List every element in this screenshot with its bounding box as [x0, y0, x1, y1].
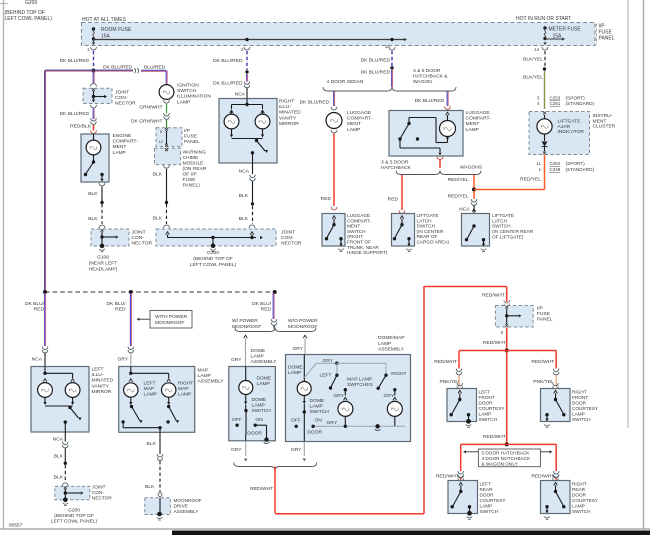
lamp LEFT MAP LAMP — [129, 379, 133, 382]
svg-text:LUGGAGE: LUGGAGE — [347, 213, 370, 218]
svg-text:NCA: NCA — [53, 436, 64, 442]
svg-text:LIFTGATE: LIFTGATE — [417, 213, 439, 218]
wire RED stub to brace — [439, 160, 441, 169]
svg-text:MINATED: MINATED — [92, 378, 114, 384]
wire RED/YEL down — [473, 191, 475, 199]
wire RED/WHT from dome brace — [274, 467, 276, 514]
svg-text:CON-: CON- — [92, 490, 104, 495]
svg-text:G200: G200 — [68, 508, 80, 514]
right map lamp terminal — [393, 388, 396, 391]
splice node — [543, 67, 546, 70]
svg-text:DOME: DOME — [251, 348, 266, 354]
svg-text:& WAGON ONLY: & WAGON ONLY — [482, 461, 519, 466]
svg-text:LEFT COWL PANEL): LEFT COWL PANEL) — [190, 262, 237, 268]
wire RED/WHT centre down — [506, 351, 508, 445]
svg-text:FUSE: FUSE — [184, 134, 198, 140]
svg-text:PANEL: PANEL — [537, 317, 553, 323]
lamp left vanity bulb — [230, 110, 234, 113]
brace moonroof split — [235, 328, 316, 332]
svg-text:RED: RED — [115, 307, 126, 313]
connector lf — [456, 369, 462, 372]
svg-text:INSTRU-: INSTRU- — [593, 113, 613, 119]
wire RED/WHT left branch — [459, 350, 507, 352]
connector at fuse panel — [504, 300, 510, 303]
connector below ignition lamp — [164, 100, 170, 103]
left map switch blade — [331, 375, 337, 387]
wire BLK below map box — [159, 432, 161, 454]
svg-text:DK BLU/RED: DK BLU/RED — [415, 98, 445, 104]
moonroof connector ring — [158, 493, 162, 497]
connector pin 1 — [91, 47, 97, 50]
svg-text:4 DOOR NOTCHBACK: 4 DOOR NOTCHBACK — [482, 456, 532, 461]
contact OFF 2 — [295, 425, 298, 428]
svg-text:COMPART-: COMPART- — [466, 116, 492, 122]
svg-text:PANEL): PANEL) — [183, 183, 201, 189]
svg-text:LAMP: LAMP — [347, 127, 360, 133]
svg-text:RIGHT: RIGHT — [572, 482, 587, 487]
svg-text:ASSEMBLY: ASSEMBLY — [378, 347, 405, 353]
svg-text:ON: ON — [255, 417, 263, 423]
svg-text:HATCHBACK &: HATCHBACK & — [413, 73, 448, 79]
wire DK BLU/RED riser 1 — [44, 293, 46, 346]
svg-text:IGNITION: IGNITION — [177, 83, 199, 89]
splice node — [64, 462, 67, 465]
svg-text:MENT: MENT — [466, 121, 480, 127]
svg-text:RED/WHT: RED/WHT — [482, 292, 505, 298]
wire RED/BLK — [93, 125, 95, 131]
svg-text:11: 11 — [537, 161, 542, 166]
wire DK BLU/RED to left riser — [45, 69, 94, 71]
connector rf — [553, 369, 559, 372]
svg-text:MOONROOF: MOONROOF — [288, 324, 317, 330]
note arrow — [140, 318, 151, 320]
junction RED/YEL — [472, 188, 476, 192]
svg-text:LAMP: LAMP — [288, 370, 301, 376]
svg-text:JOINT: JOINT — [115, 90, 129, 96]
joint connector G108 box — [91, 229, 129, 246]
svg-text:FRONT OF: FRONT OF — [347, 240, 371, 245]
diode symbol — [544, 134, 546, 141]
svg-text:RED/WHT: RED/WHT — [436, 473, 459, 479]
svg-text:DOOR: DOOR — [307, 429, 322, 435]
wire below left mirror — [64, 432, 66, 442]
svg-text:DK GRN/WHT: DK GRN/WHT — [131, 119, 163, 125]
svg-text:HATCHBACK: HATCHBACK — [381, 165, 412, 171]
svg-text:G200: G200 — [25, 0, 37, 6]
svg-text:MIRROR: MIRROR — [92, 389, 112, 395]
svg-text:MINATED: MINATED — [279, 110, 301, 116]
svg-text:GRY: GRY — [293, 346, 304, 352]
svg-text:HINGE SUPPORT): HINGE SUPPORT) — [347, 250, 388, 255]
pin into joint connector — [92, 88, 95, 91]
right map switch pivot — [384, 374, 387, 377]
right map switch blade — [379, 375, 386, 387]
entry arrow left — [166, 232, 170, 235]
svg-text:MOONROOF: MOONROOF — [174, 498, 202, 503]
svg-text:RIGHT: RIGHT — [279, 99, 294, 105]
svg-text:I/P: I/P — [184, 128, 190, 134]
dome2 entry — [303, 355, 305, 381]
svg-text:LAMP: LAMP — [572, 504, 585, 509]
svg-text:FUSE: FUSE — [183, 177, 197, 183]
connector — [399, 210, 405, 213]
svg-text:LAMP: LAMP — [257, 381, 270, 387]
svg-text:LAMP: LAMP — [378, 341, 391, 347]
svg-text:LATCH: LATCH — [492, 218, 507, 223]
svg-text:ROOM FUSE: ROOM FUSE — [101, 27, 132, 33]
wire RED/YEL from cluster — [544, 155, 546, 190]
wire BLK dashed — [166, 204, 168, 224]
inline connector — [250, 175, 256, 178]
ground moonroof — [157, 512, 162, 517]
pin into G108 — [101, 229, 104, 232]
svg-text:SWITCH: SWITCH — [572, 509, 591, 514]
wire PNK/YEL rf — [555, 376, 557, 388]
svg-text:(RIGHT: (RIGHT — [347, 234, 363, 239]
connector into G200 — [249, 225, 255, 228]
svg-text:RED/WHT: RED/WHT — [531, 359, 554, 365]
connector pin 14 — [542, 47, 548, 50]
svg-text:INDICATOR: INDICATOR — [558, 129, 585, 135]
G200 lower node — [64, 489, 66, 493]
svg-text:FRONT: FRONT — [572, 395, 588, 400]
switch LEFT REAR DOOR COURTESY LAMP — [458, 475, 464, 478]
svg-text:NECTOR: NECTOR — [281, 241, 302, 247]
connector lr — [458, 471, 464, 474]
svg-text:NCA: NCA — [459, 206, 470, 212]
ground G200 — [212, 238, 214, 245]
svg-text:OFF: OFF — [291, 417, 301, 423]
svg-text:BLK: BLK — [239, 193, 249, 199]
lamp DOME LAMP — [244, 379, 248, 382]
svg-text:SWITCH: SWITCH — [492, 224, 511, 229]
liftgate latch switch (cargo) box — [392, 214, 415, 247]
lamp RIGHT MAP LAMP 2 — [387, 401, 402, 416]
engine lamp switch — [93, 155, 95, 162]
svg-text:WAGONS: WAGONS — [460, 165, 483, 171]
svg-text:MAP: MAP — [144, 386, 155, 392]
svg-text:LEFT COWL PANEL): LEFT COWL PANEL) — [51, 519, 98, 525]
svg-text:NCA: NCA — [239, 168, 250, 174]
svg-text:BLK: BLK — [54, 454, 64, 460]
joint connector G200 lower box — [55, 486, 90, 499]
svg-text:OF I/P: OF I/P — [183, 172, 197, 178]
svg-text:BLK: BLK — [239, 216, 249, 222]
svg-text:SWITCH: SWITCH — [252, 408, 272, 414]
connector at engine lamp — [91, 130, 97, 133]
wire DK BLU/RED to hatchback lamp — [446, 92, 448, 107]
svg-text:BLK: BLK — [54, 475, 64, 481]
entry arrow — [446, 112, 450, 115]
pin out of fuse panel — [165, 144, 168, 147]
svg-text:LEFT: LEFT — [479, 390, 491, 395]
svg-text:BLK: BLK — [147, 441, 157, 447]
svg-text:BLK: BLK — [88, 191, 98, 197]
svg-text:BLK: BLK — [145, 484, 155, 490]
ground below liftgate switch — [482, 244, 485, 247]
svg-text:RIGHT: RIGHT — [391, 371, 406, 377]
svg-text:DK BLU/RED: DK BLU/RED — [60, 58, 90, 64]
fuse METER FUSE 15A — [543, 26, 546, 29]
svg-text:MENT: MENT — [347, 224, 360, 229]
svg-text:WARNING: WARNING — [183, 150, 207, 156]
ground G108 — [100, 244, 105, 249]
svg-text:LAMP: LAMP — [144, 392, 157, 398]
svg-text:AJAR: AJAR — [558, 124, 571, 130]
right inner border — [627, 0, 629, 428]
svg-text:SWITCH: SWITCH — [310, 409, 330, 415]
wire BLK dashed — [159, 461, 161, 492]
svg-text:WAGON: WAGON — [413, 79, 432, 85]
svg-text:MOONROOF: MOONROOF — [232, 324, 261, 330]
svg-text:HOT AT ALL TIMES: HOT AT ALL TIMES — [82, 17, 127, 23]
svg-text:SWITCH: SWITCH — [177, 88, 197, 94]
svg-text:DOME: DOME — [252, 397, 267, 403]
svg-text:OF LIFTGATE): OF LIFTGATE) — [492, 234, 524, 239]
brace hatchback/wagons — [396, 171, 481, 175]
svg-text:LEFT: LEFT — [144, 381, 156, 387]
junction RED/WHT lower — [505, 442, 509, 446]
brace body split — [323, 87, 456, 91]
note box 5 DOOR HATCHBACK — [478, 449, 540, 467]
liftgate cargo switch mech — [400, 216, 404, 219]
wire DK BLU/RED to sedan lamp — [333, 92, 335, 107]
liftgate latch switch (liftgate) box — [462, 214, 490, 247]
ground below liftgate cargo switch — [407, 244, 410, 247]
svg-text:DOOR: DOOR — [572, 493, 587, 498]
svg-text:3 & 5 DOOR: 3 & 5 DOOR — [381, 160, 409, 166]
wire DK BLU/RED riser 2 — [129, 293, 131, 346]
svg-text:14: 14 — [534, 47, 539, 52]
wire BLK/YEL — [544, 71, 546, 109]
connector into G200 joint connector — [164, 225, 170, 228]
lamp right vanity bulb — [261, 110, 265, 113]
svg-text:LAMP: LAMP — [198, 373, 211, 379]
svg-text:GRY: GRY — [291, 447, 302, 453]
lamp DOME LAMP 2 — [303, 380, 307, 383]
bus node mid — [129, 290, 133, 294]
entry arrow right — [250, 232, 254, 235]
svg-text:GRY: GRY — [323, 358, 334, 364]
map output bus — [121, 420, 124, 423]
indicator LIFTGATE AJAR — [544, 115, 546, 119]
lamp ENGINE COMPARTMENT LAMP — [93, 134, 95, 140]
bus from room fuse — [94, 39, 404, 41]
svg-text:RED/YEL: RED/YEL — [448, 193, 469, 199]
wire DK BLU/RED dashed from pin 1 — [93, 51, 95, 67]
luggage switch mech — [332, 216, 336, 219]
wire rr — [555, 478, 557, 480]
svg-text:DOOR: DOOR — [572, 401, 587, 406]
dome switch blade — [245, 411, 247, 435]
left vanity switch — [68, 406, 71, 409]
svg-text:RED: RED — [388, 197, 399, 203]
svg-text:FUSE: FUSE — [537, 311, 551, 317]
svg-text:ILLUMINATION: ILLUMINATION — [177, 94, 211, 100]
svg-text:RED: RED — [321, 196, 332, 202]
svg-text:LEFT: LEFT — [320, 372, 332, 378]
svg-text:ASSEMBLY: ASSEMBLY — [174, 509, 200, 514]
left map switch — [130, 397, 132, 404]
svg-text:NCA: NCA — [32, 357, 43, 363]
svg-text:DK BLU/RED: DK BLU/RED — [300, 99, 330, 105]
dashed distribution bus — [45, 291, 275, 293]
brace dome outputs join — [234, 463, 317, 471]
svg-text:W/O POWER: W/O POWER — [288, 318, 318, 324]
wire BLK dashed — [101, 204, 103, 224]
svg-text:LAMP: LAMP — [466, 127, 479, 133]
I/P fuse panel passthrough box — [156, 128, 182, 147]
svg-text:RIGHT: RIGHT — [178, 381, 193, 387]
lamp left bulb — [43, 379, 47, 382]
svg-text:JOINT: JOINT — [132, 230, 146, 236]
svg-text:GRY: GRY — [384, 393, 395, 399]
wire DK BLU/RED dashed from pin 2 — [246, 51, 248, 70]
svg-text:(NEAR LEFT: (NEAR LEFT — [89, 261, 118, 267]
svg-text:MAP: MAP — [198, 368, 209, 374]
map feed node — [130, 367, 132, 374]
connector below chime module — [164, 165, 170, 168]
wire BLU/RED to ignition lamp — [141, 69, 167, 71]
connector — [157, 454, 163, 457]
pin into cluster — [543, 112, 546, 115]
svg-text:(SPORT): (SPORT) — [566, 161, 586, 166]
left map switch pivot — [336, 363, 338, 374]
svg-text:JOINT: JOINT — [92, 485, 106, 490]
wire into left vanity mirror — [44, 353, 46, 367]
connector rr — [553, 471, 559, 474]
right outer border — [643, 0, 645, 529]
fuse ROOM FUSE 15A — [92, 27, 95, 30]
svg-text:DOOR: DOOR — [247, 430, 262, 436]
wire into liftgate switch — [473, 205, 475, 214]
svg-text:MAP: MAP — [178, 386, 189, 392]
svg-text:VANITY: VANITY — [279, 115, 297, 121]
bus node left — [43, 290, 47, 294]
svg-text:RED: RED — [261, 307, 272, 313]
svg-text:GRY: GRY — [333, 393, 344, 399]
pin into G200 lower — [64, 486, 67, 489]
svg-text:G108: G108 — [97, 255, 109, 261]
inline connector — [164, 113, 170, 116]
wire BLK — [64, 449, 66, 463]
moonroof internal wire — [159, 498, 161, 514]
liftgate switch mech — [472, 224, 475, 227]
svg-text:CON-: CON- — [115, 95, 128, 101]
svg-text:JOINT: JOINT — [281, 230, 295, 236]
svg-text:TRUNK, NEAR: TRUNK, NEAR — [347, 245, 379, 250]
hatchback lamp to switch path — [446, 138, 449, 141]
svg-text:BLK: BLK — [153, 172, 163, 178]
svg-text:RED/WHT: RED/WHT — [483, 340, 506, 346]
svg-text:COMPART-: COMPART- — [347, 218, 372, 223]
svg-text:PNK/YEL: PNK/YEL — [533, 379, 554, 385]
joint connector G200 box — [156, 229, 276, 246]
wire DK BLU/RED to ignition lamp — [94, 69, 134, 71]
fuse panel 2 node — [506, 309, 508, 316]
svg-text:COMPART-: COMPART- — [113, 139, 139, 145]
svg-text:NECTOR: NECTOR — [115, 101, 136, 107]
wire to right dome branch — [303, 335, 307, 338]
left illuminated vanity mirror box — [31, 367, 89, 433]
svg-text:DOME: DOME — [257, 375, 272, 381]
connector below sedan lamp — [331, 130, 337, 133]
switch RIGHT FRONT DOOR COURTESY LAMP — [553, 383, 559, 386]
wire RED/WHT down — [506, 328, 508, 351]
wire BLK dashed — [252, 206, 254, 224]
splice node — [100, 201, 103, 204]
I/P fuse panel box 2 — [495, 306, 533, 328]
wire BLK dashed — [64, 465, 66, 482]
svg-text:DK BLU/RED: DK BLU/RED — [213, 58, 243, 64]
svg-text:COURTESY: COURTESY — [479, 406, 506, 411]
svg-text:DOME: DOME — [288, 364, 303, 370]
svg-text:SWITCH: SWITCH — [417, 224, 436, 229]
joint connector (engine harness) — [83, 88, 112, 103]
svg-text:C251: C251 — [550, 101, 561, 106]
wire BLK — [252, 182, 254, 204]
svg-text:MENT: MENT — [347, 121, 361, 127]
svg-text:DK BLU/RED: DK BLU/RED — [213, 81, 243, 87]
vanity joining bus — [44, 398, 46, 404]
wire RED/WHT into fuse panel — [506, 287, 508, 303]
svg-text:ASSEMBLY: ASSEMBLY — [251, 359, 278, 365]
splice node — [251, 202, 254, 205]
moonroof drive assembly box — [145, 498, 171, 515]
wire DK BLU/RED riser 3 — [272, 293, 274, 319]
dome entry — [245, 367, 247, 380]
dome2 exit — [303, 436, 305, 442]
svg-text:(IN CENTER: (IN CENTER — [417, 229, 444, 234]
svg-text:WITH POWER: WITH POWER — [155, 314, 188, 320]
svg-text:DK BLU/: DK BLU/ — [106, 301, 126, 307]
svg-text:(SPORT): (SPORT) — [566, 96, 586, 101]
svg-text:LEFT: LEFT — [480, 482, 492, 487]
note arrows — [466, 451, 478, 453]
svg-text:DRIVE: DRIVE — [174, 503, 188, 508]
inline connector — [91, 118, 97, 121]
svg-text:DK BLU/RED: DK BLU/RED — [60, 111, 90, 117]
svg-text:MOONROOF: MOONROOF — [155, 320, 184, 326]
svg-text:4 DOOR SEDAN: 4 DOOR SEDAN — [327, 79, 364, 85]
svg-text:C252: C252 — [550, 161, 561, 166]
bracket I/P fuse panel — [596, 24, 598, 45]
junction node — [92, 69, 96, 73]
warning chime module box — [155, 148, 181, 164]
svg-text:(STANDARD): (STANDARD) — [566, 101, 595, 106]
svg-text:ENGINE: ENGINE — [113, 133, 132, 139]
ON to case ground — [255, 424, 266, 426]
connector at hatchback luggage lamp — [445, 106, 451, 109]
instrument cluster box — [529, 112, 590, 155]
svg-text:DK BLU/RED: DK BLU/RED — [103, 65, 133, 71]
wire DK BLU/RED — [246, 74, 248, 82]
contact ON 2 — [311, 425, 314, 428]
meter fuse output to pin 14 — [543, 42, 546, 45]
svg-text:COURTESY: COURTESY — [572, 498, 599, 503]
svg-text:5 DOOR HATCHBACK: 5 DOOR HATCHBACK — [482, 451, 531, 456]
wire GRN/WHT — [166, 104, 168, 114]
mirror feed node — [44, 367, 46, 374]
svg-text:RIGHT: RIGHT — [572, 390, 587, 395]
svg-text:LIFTGATE: LIFTGATE — [558, 119, 582, 125]
svg-text:HOT IN RUN OR START: HOT IN RUN OR START — [516, 16, 571, 22]
svg-text:DK BLU/RED: DK BLU/RED — [361, 70, 391, 76]
switch LEFT FRONT DOOR COURTESY LAMP — [457, 383, 463, 386]
inline connector — [244, 81, 250, 84]
lamp RIGHT MAP LAMP — [167, 379, 171, 382]
wire to left dome branch — [273, 326, 275, 329]
